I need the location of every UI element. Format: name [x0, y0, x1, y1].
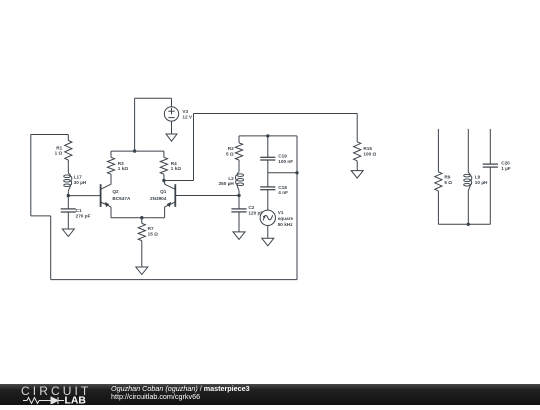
svg-text:L9: L9 — [475, 175, 481, 180]
node A junction R1/L17/C1/Q2-base — [67, 194, 70, 197]
resistor R3 — [107, 151, 128, 184]
capacitor C18 — [260, 173, 288, 195]
svg-text:R2: R2 — [228, 146, 234, 151]
wire Q1 collector to top rail — [164, 114, 194, 181]
svg-text:C19: C19 — [278, 153, 287, 158]
svg-text:250 µH: 250 µH — [219, 181, 235, 186]
svg-text:L17: L17 — [74, 174, 82, 179]
svg-text:1 kΩ: 1 kΩ — [171, 166, 182, 171]
svg-text:R3: R3 — [118, 161, 124, 166]
node x=297 mid junction — [295, 171, 298, 174]
svg-text:R9: R9 — [444, 175, 450, 180]
svg-text:10 µH: 10 µH — [475, 180, 488, 185]
capacitor C20 — [483, 129, 511, 224]
svg-text:100 nF: 100 nF — [278, 159, 293, 164]
wire V3 to rail — [135, 98, 172, 151]
wire top rail to R15 — [194, 114, 358, 142]
transistor Q2 BC547A — [101, 174, 131, 218]
ground below V1 — [262, 226, 274, 246]
inductor L2 — [219, 160, 244, 196]
svg-text:R4: R4 — [171, 161, 177, 166]
node right trio junction — [467, 223, 470, 226]
ground below R15 — [351, 161, 363, 178]
svg-text:50 kHz: 50 kHz — [278, 222, 294, 227]
svg-text:C1: C1 — [76, 208, 82, 213]
svg-text:270 pF: 270 pF — [76, 214, 91, 219]
svg-text:BC547A: BC547A — [112, 196, 131, 201]
svg-text:L2: L2 — [228, 176, 234, 181]
svg-text:1 µF: 1 µF — [501, 166, 511, 171]
voltage source V3 12V — [164, 98, 193, 121]
svg-text:Q2: Q2 — [112, 189, 119, 194]
ground below C2 — [233, 212, 245, 240]
node emitter junction — [140, 216, 143, 219]
node rail-V3 junction — [133, 149, 136, 152]
wire right vertical of loop x=297 — [296, 136, 298, 280]
svg-text:15 Ω: 15 Ω — [148, 232, 159, 237]
ground below C1 — [62, 212, 74, 237]
transistor Q1 2N3904 — [150, 181, 175, 218]
svg-text:5 Ω: 5 Ω — [226, 151, 234, 156]
svg-text:R7: R7 — [148, 226, 154, 231]
wire V+ rail R3-R4 — [111, 150, 164, 152]
resistor R1 — [55, 135, 72, 161]
svg-text:C18: C18 — [278, 185, 287, 190]
svg-text:30 µH: 30 µH — [74, 180, 87, 185]
wire Q1 base to node — [175, 195, 239, 197]
svg-text:C20: C20 — [501, 161, 510, 166]
svg-text:100 Ω: 100 Ω — [363, 152, 376, 157]
inductor L9 — [464, 129, 488, 224]
resistor R7 — [138, 218, 158, 241]
wire top-left loop from R1 top to outer left rail — [31, 135, 69, 280]
wire node A to Q2 base — [68, 195, 100, 197]
svg-text:square: square — [278, 216, 294, 221]
svg-text:Q1: Q1 — [160, 189, 167, 194]
svg-text:1 kΩ: 1 kΩ — [118, 166, 129, 171]
svg-text:4 nF: 4 nF — [278, 190, 288, 195]
wire right trio bottom — [438, 223, 490, 225]
CircuitLab logo — [20, 384, 100, 404]
inductor L17 — [64, 160, 87, 196]
ground below R7 — [136, 241, 148, 275]
svg-text:R15: R15 — [363, 146, 372, 151]
svg-text:2N3904: 2N3904 — [150, 196, 167, 201]
node L2/C2/Q1-base junction — [237, 194, 240, 197]
resistor R4 — [160, 151, 181, 180]
svg-text:1 Ω: 1 Ω — [55, 151, 63, 156]
wire C19 bottom junction to x=297 — [268, 160, 297, 173]
node C19 top junction — [266, 134, 269, 137]
ground below V3 — [166, 121, 177, 141]
resistor R9 — [435, 129, 453, 224]
svg-text:5 Ω: 5 Ω — [444, 180, 452, 185]
voltage source V1 square 50kHz — [260, 190, 293, 227]
footer text — [111, 385, 250, 401]
wire R2 top to x=297 — [239, 135, 297, 137]
svg-text:12 V: 12 V — [182, 114, 193, 119]
resistor R2 — [226, 136, 243, 160]
wire bottom rail — [51, 279, 297, 281]
capacitor C1 — [61, 196, 91, 219]
svg-text:C2: C2 — [248, 205, 254, 210]
svg-text:R1: R1 — [56, 145, 62, 150]
svg-text:LAB: LAB — [65, 396, 87, 405]
wire emitter bus — [111, 217, 165, 219]
capacitor C2 — [231, 196, 263, 216]
resistor R15 — [354, 142, 377, 161]
capacitor C19 — [260, 136, 293, 164]
node Q1 collector junction — [162, 179, 165, 182]
svg-text:V1: V1 — [278, 210, 284, 215]
